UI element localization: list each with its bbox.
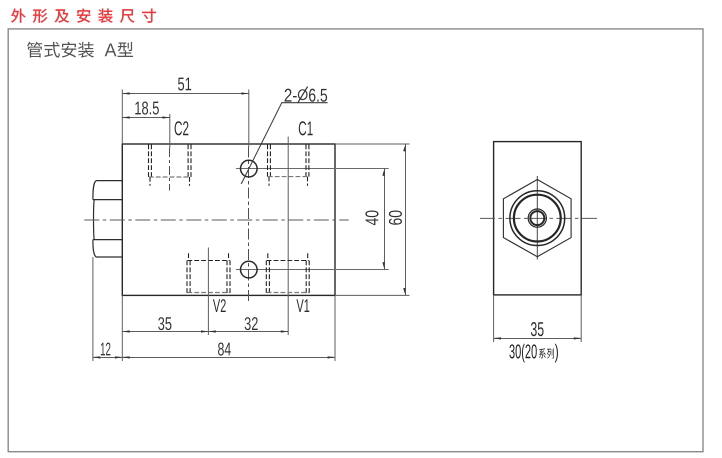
port V2 (dashed) [187,253,230,294]
plug center hole inner [530,211,544,225]
port V1 (dashed) [266,253,309,294]
shared centerline C1/V1 + 32 extension [287,137,289,336]
port C1 (dashed) [268,145,309,186]
plug center hole outer [528,209,546,227]
port C2 centerline / 18.5 extension [169,114,171,148]
dimension 35 (side) [493,295,495,342]
valve block outline [122,144,335,295]
label V2 [213,299,226,312]
top mounting hole circle [236,168,389,170]
red page title 外形及安装尺寸 [11,9,156,23]
side view vertical centerline [536,176,538,260]
label C2 [175,121,189,135]
subtitle 管式安装 A型 [27,42,133,58]
plug chamfer circle inner [514,195,561,242]
bottom mounting hole circle [236,269,389,271]
port C2 (dashed) [149,145,192,186]
label C1 [299,121,313,135]
hex plug side view (left protrusion) [93,181,122,257]
hex plug nut (front view) [503,180,571,257]
vertical centerline through holes [248,147,250,304]
leader line for 2-φ6.5 [241,103,327,184]
side view body outline [494,142,582,295]
dimension 40 (vertical) [384,169,386,270]
dimension 12 [92,257,94,361]
horizontal centerline of front view [84,219,348,221]
side view horizontal centerline [480,217,600,219]
dimension 84 [121,295,123,361]
dimension 18.5 [122,117,170,119]
label 30(20系列) [509,344,558,363]
dimension 35 (front) [122,331,208,333]
dimension 51 [122,90,249,147]
port V2 centerline / 35-32 extension [207,248,209,336]
label 2-φ6.5 [285,87,328,103]
plug chamfer circle outer [510,191,565,246]
dimension 32 [208,331,288,333]
dimension 60 (vertical) [335,143,410,145]
label V1 [296,299,309,312]
